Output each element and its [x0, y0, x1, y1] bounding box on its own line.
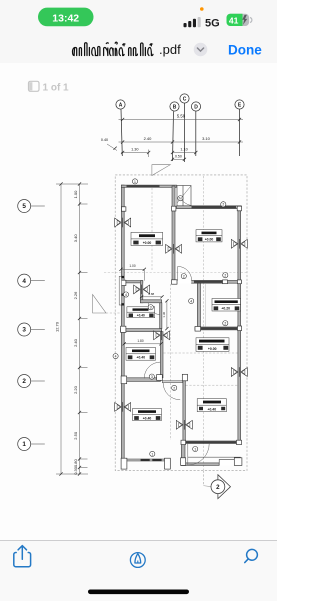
status: green call pill — [38, 8, 94, 27]
tag bubble 2 terrace bottom — [223, 321, 228, 326]
bedroom1 bottom wall lines — [124, 459, 164, 461]
dashed grid line x170.5 — [170, 284, 172, 440]
bubble N entry — [178, 196, 183, 201]
title: thai squiggle แปลนก่ออิฐผนัง — [73, 42, 154, 55]
entry box top middle — [177, 186, 191, 207]
dimension 0.40 eave — [101, 138, 117, 151]
room label terrace walkway — [212, 299, 241, 312]
lintel living bottom — [186, 441, 236, 443]
tag bubble 2 right top wall — [221, 202, 226, 207]
status: mic orange dot — [200, 7, 204, 11]
dashed partition y385 — [186, 384, 238, 386]
window W wall x160 — [154, 331, 170, 341]
wall top left section — [121, 185, 176, 187]
room label bathroom1 — [127, 307, 155, 318]
wall bathroom1 bottom — [121, 329, 162, 332]
slope triangle top — [152, 165, 170, 176]
door arc corridor to bedroom1 — [163, 383, 180, 400]
dimension 2.40 / 3.10 — [119, 136, 244, 144]
tag bubble 1 porch door — [193, 446, 198, 451]
dimension 5.58 — [119, 113, 244, 121]
wall living left — [183, 377, 185, 443]
wall left exterior — [121, 185, 124, 461]
column blocks — [121, 206, 242, 469]
section marker 2 bottom — [203, 471, 230, 499]
room label living — [197, 399, 226, 412]
window W middle wall — [166, 244, 182, 254]
wall right exterior — [238, 206, 241, 444]
tag bubble 4 corridor wall — [189, 298, 194, 303]
wall top right section — [177, 206, 242, 209]
door arc bathroom1 — [148, 303, 160, 315]
dashed grid line y272.4 — [104, 271, 247, 273]
page count pill — [29, 81, 70, 93]
grid bubble E — [235, 100, 244, 156]
dimension 1.30 vertical — [162, 299, 169, 330]
door arc bathroom2 — [144, 362, 160, 378]
left grid bubble 4 — [18, 274, 45, 287]
wall corridor vertical — [197, 283, 200, 327]
walkway edge line — [205, 284, 207, 327]
toolbar background — [0, 540, 277, 601]
window W right wall upper — [231, 239, 247, 249]
dimension 1.85 — [123, 339, 163, 345]
grid bubble C — [180, 94, 189, 162]
slope triangle left — [93, 295, 106, 314]
roof overhang dashed outline — [115, 175, 247, 471]
dimension 1.30 top — [121, 147, 150, 157]
window W left wall lower — [115, 402, 131, 412]
left dimension 12.70 — [55, 182, 63, 475]
wall bottom of right bedroom — [172, 280, 241, 283]
grid bubble D — [191, 102, 200, 156]
door arc right bedroom — [178, 266, 192, 280]
tag bubble 3 bathroom1 step — [148, 305, 153, 310]
porch bottom notch — [219, 460, 234, 466]
window W living left wall — [176, 420, 192, 430]
wall bathroom1 step — [140, 300, 161, 303]
tag bubble 4 bathroom2 — [113, 354, 118, 359]
left dimension column segments — [56, 182, 88, 475]
left grid bubble 1 — [18, 438, 45, 451]
tag bubble 1 bedroom1 bottom — [150, 451, 155, 456]
dimension 0.50 top — [171, 155, 186, 161]
lintel top wall — [127, 185, 160, 187]
grid bubble A — [116, 100, 125, 156]
tag bubble 3 bathroom2 wall — [149, 374, 154, 379]
door arc porch — [188, 444, 209, 465]
wall terrace bottom — [195, 327, 241, 330]
left grid bubble 3 — [18, 323, 45, 336]
left grid bubble 5 — [18, 200, 45, 213]
entry box door arc — [181, 200, 195, 207]
room label bedroom1 — [133, 409, 162, 421]
window W right wall lower — [231, 367, 247, 377]
wall middle vertical B — [172, 186, 175, 283]
toolbar share icon — [14, 546, 31, 567]
dashed grid line x139.5 — [151, 188, 153, 270]
room label bathroom2 — [126, 348, 156, 361]
porch step edge — [188, 456, 241, 458]
status: signal bars — [184, 17, 201, 27]
window W bathroom1 wall — [134, 285, 150, 295]
duct shaft left wall — [119, 276, 124, 306]
room label left bedroom — [131, 232, 163, 245]
dashed stub left y307 — [106, 312, 121, 314]
toolbar markup icon — [130, 553, 145, 568]
room label right bedroom — [196, 230, 222, 242]
wall living bottom — [181, 441, 240, 444]
grid bubble B — [170, 102, 179, 161]
bedroom1 bottom lintels — [141, 459, 150, 461]
door gap right bedroom — [177, 280, 191, 284]
tag bubble 2 bedroom1 door — [172, 385, 177, 390]
dashed partition y353 — [164, 352, 238, 354]
wall bathroom1 right — [140, 281, 142, 303]
title: chevron circle — [194, 43, 208, 57]
home indicator — [88, 590, 189, 595]
wall corridor bottom thin — [162, 381, 182, 383]
wall x160 lower — [160, 332, 163, 378]
wall bathroom1 top — [124, 281, 143, 283]
dimension 1.10 top — [171, 147, 198, 154]
left grid bubble 2 — [18, 375, 45, 388]
lintel terrace bottom — [201, 327, 237, 329]
dimension 1.00 bathroom — [119, 264, 145, 280]
tag bubble 1 top wall — [132, 179, 137, 184]
tag bubble 2 right bedroom door — [181, 274, 186, 279]
toolbar search icon — [245, 549, 258, 562]
wall porch left — [181, 444, 185, 466]
wall x160 upper — [160, 303, 162, 329]
page background — [0, 63, 277, 540]
section line x203.4 dashed — [202, 176, 204, 470]
dimension 0.88 — [140, 292, 164, 298]
tag bubble 4 bathroom1 — [123, 292, 128, 297]
lintel right bedroom bottom — [194, 281, 224, 283]
tag bubble 2 right bedroom wall right — [223, 273, 228, 278]
room label middle right room — [196, 338, 229, 352]
status: battery — [227, 14, 252, 26]
window W left wall upper — [115, 218, 131, 228]
lintel right top wall — [192, 206, 237, 208]
wall bathroom2 bottom — [124, 378, 160, 382]
wall porch bottom left part — [181, 463, 219, 466]
top chrome background — [0, 0, 277, 64]
